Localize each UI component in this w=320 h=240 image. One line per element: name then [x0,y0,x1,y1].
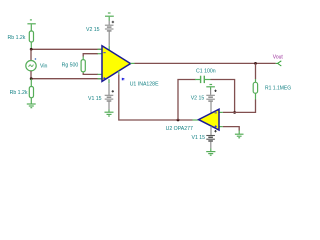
wire battery V1 (U2) to ground [210,142,212,149]
ground under Rb2 [27,104,36,108]
pin stub output of U2 [193,119,199,121]
VCC bar terminal of Rb1 [27,20,35,31]
svg-text:Rg 500: Rg 500 [62,62,79,68]
wire battery V2 top terminal [108,21,110,25]
resistor Rg 500 body [81,60,85,72]
battery V2 15 (U2) plates [206,95,215,101]
resistor Rg bottom lead and corner [83,72,102,75]
wire bottom rail (in+ rail) [31,78,102,80]
battery V1 15 (U2) plates [206,136,215,142]
wire U2 V- pin down to battery V1 (U2) [210,126,212,135]
plus mark inside U2 [215,125,217,127]
wire U2 in+ to ground [223,127,239,131]
pin stub in- of U2 [219,111,223,113]
plus mark of battery V1 (U1) [112,90,114,92]
svg-text:R1 1.1MEG: R1 1.1MEG [265,85,291,91]
wire R1 top lead [255,63,257,79]
wire Rb2 top lead [30,79,32,87]
plus mark of battery V2 (U2) [214,90,216,92]
wire battery V2 (U2) top terminal [210,90,212,95]
pin stub V- of U1 [108,79,110,83]
resistor Rg 500: top lead and corner [83,54,102,60]
minus mark inside U1 [103,52,105,54]
node junction dot bottom rail / Rb2 [30,77,33,80]
sine squiggle inside Vin [29,65,34,67]
node junction dot top rail / Vin [30,48,33,51]
wire battery V2 to U1 V+ pin [108,31,110,45]
svg-text:Rb 1.2k: Rb 1.2k [10,90,28,96]
wire C1 right to U2 in- node [211,80,235,113]
ground at U2 in+ [235,134,244,138]
pin stub in+ of U2 [219,126,223,128]
node junction dot R1 top [254,62,257,65]
wire C1 branch: left riser from REF wire up to cap level [178,80,196,121]
wire Rb1 bottom to top rail [30,42,32,49]
resistor R1 1.1MEG body [253,82,257,93]
plus mark of Vin [35,58,37,60]
ground under battery V1 (U1) [105,112,114,116]
ground under battery V1 (U2) [206,152,215,156]
capacitor C1 plates [201,76,205,83]
wire U1 output rail to Vout [135,62,276,64]
op-amp U2 OPA277 triangle [199,109,219,130]
wire R1 bottom to U2 in- [223,100,256,113]
op-amp U1 INA128E triangle [102,46,131,82]
wire top rail (in- rail) [31,48,102,50]
svg-text:V1 15: V1 15 [192,135,206,141]
voltage source Vin circle [26,60,36,70]
svg-text:V2 15: V2 15 [191,95,205,101]
svg-text:V2 15: V2 15 [86,27,100,33]
wire Vin top lead [30,49,32,60]
Vout terminal arrow [276,61,282,66]
svg-text:C1 100n: C1 100n [196,68,216,74]
wire battery V2 (U2) to U2 V+ pin [210,102,212,114]
svg-text:Rb 1.2k: Rb 1.2k [8,35,26,41]
blue macro flag of U1 [122,78,125,81]
battery V2 15 (top) positive terminal cap [105,13,114,21]
wire REF of U1 down and right to U2 output [119,74,193,120]
minus mark inside U2 [215,112,217,114]
capacitor C1 left lead [195,79,201,81]
wire U1 V- pin down to battery V1 [108,83,110,95]
wire battery V1 to ground [108,102,110,110]
node junction dot C1 right / in- wire [233,111,236,114]
pin stub output of U1 [131,62,135,64]
pin stub REF of U1 [118,71,120,75]
svg-text:U2 OPA277: U2 OPA277 [166,126,193,132]
capacitor C1 right lead [204,79,210,81]
battery V1 15 (U1) plates [105,95,114,101]
battery V2 15 (top) plates [105,25,114,31]
svg-text:Vin: Vin [40,64,48,70]
svg-text:Vout: Vout [273,54,284,60]
svg-text:V1 15: V1 15 [88,96,102,102]
pin stub V+ of U1 [108,46,110,50]
plus mark of battery V2 (top) [112,21,114,23]
resistor Rb2 1.2k body [29,87,33,98]
resistor Rb1 1.2k body [29,31,33,42]
svg-text:U1 INA128E: U1 INA128E [130,82,159,88]
pin stub in- of U1 [98,48,103,50]
wire R1 bottom lead [255,93,257,99]
wire Rb2 bottom to ground [30,98,32,104]
node junction dot C1 left / REF wire [177,119,180,122]
plus mark of battery V1 (U2) [214,130,216,132]
wire Vin bottom lead [30,71,32,79]
pin stub in+ of U1 [98,78,103,80]
plus mark inside U1 [103,77,105,79]
battery V2 15 (U2) positive terminal cap [206,85,215,90]
